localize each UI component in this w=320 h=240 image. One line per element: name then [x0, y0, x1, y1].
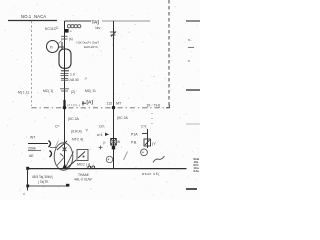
junction feeder2 [112, 106, 115, 109]
wire bold segment [63, 100, 65, 108]
dashed fence right [168, 0, 170, 105]
svg-text:1kv: 1kv [95, 26, 101, 30]
svg-text:[X - TH]: [X - TH] [147, 103, 160, 107]
svg-text:LVA 30: LVA 30 [69, 78, 79, 82]
wire main feeder [64, 21, 66, 168]
svg-text:s: s [70, 29, 72, 33]
coil L1 [67, 25, 80, 28]
svg-text:P1A: P1A [131, 133, 138, 137]
svg-text:w 4: w 4 [97, 133, 103, 137]
mcc box [77, 150, 88, 161]
svg-text:C=(: C=( [141, 125, 147, 129]
meter M1 [47, 41, 59, 53]
svg-text:(s): (s) [69, 37, 73, 41]
svg-text:KC11C: KC11C [45, 27, 57, 31]
arrow head [105, 133, 109, 137]
svg-text:KJa: KJa [194, 169, 200, 173]
bus main bottom [28, 168, 187, 170]
svg-text:Y(0( OucP ( OasT: Y(0( OucP ( OasT [76, 41, 99, 45]
svg-text:.V: .V [84, 77, 87, 81]
ct slash [55, 141, 59, 148]
bus left corner blob [26, 167, 29, 170]
pb motor dots [142, 152, 143, 153]
svg-text:c.f = (=( - (: c.f = (=( - ( [67, 103, 80, 107]
feeder box bottom [28, 185, 69, 187]
signature squiggle [153, 156, 165, 163]
breaker circle B1 [54, 143, 73, 171]
svg-text:wsun uK(: wsun uK( [142, 172, 160, 176]
feeder box left wall [27, 169, 29, 191]
margin line bottom [186, 188, 197, 190]
svg-text:v.: v. [188, 59, 190, 63]
svg-text:Y: Y [86, 128, 89, 133]
pb contact [144, 139, 151, 146]
svg-text:W: W [117, 140, 121, 144]
node TA [92, 20, 101, 31]
svg-text:AE: AE [29, 154, 34, 158]
svg-text:MC( 11: MC( 11 [85, 89, 96, 93]
pt bar [61, 42, 63, 50]
bus top line right [102, 20, 150, 22]
motor feeder2 [106, 156, 112, 162]
bus drawout symbol [88, 166, 95, 169]
disconnect D2 [61, 78, 68, 80]
wire slash [59, 41, 63, 44]
junction main [63, 106, 67, 110]
svg-text:NO.1: NO.1 [21, 14, 32, 19]
svg-text:MC( 1(: MC( 1( [43, 89, 54, 93]
svg-text:NTC 4(: NTC 4( [72, 138, 84, 142]
margin text block [194, 157, 200, 173]
svg-text:C: C [56, 26, 59, 30]
cutout feeder2 [111, 139, 116, 146]
breaker inner marks [57, 152, 74, 168]
bus no1 line [8, 20, 57, 22]
scan speckle noise [3, 4, 198, 198]
breaker tank T1 [59, 49, 71, 68]
svg-text:THAAE: THAAE [78, 173, 90, 177]
svg-text:NACA: NACA [34, 14, 46, 19]
svg-text:M( 1.11: M( 1.11 [18, 91, 29, 95]
svg-text:(2(: (2( [71, 90, 76, 94]
disconnect D3 [60, 89, 69, 91]
margin line top [186, 20, 200, 22]
feeder box bottom serif left [26, 185, 29, 188]
svg-text:n: n [50, 45, 53, 50]
svg-text:MT: MT [116, 102, 122, 106]
mcc tie wire [66, 160, 76, 169]
pb wire [147, 129, 149, 148]
breaker tank tick [61, 70, 69, 72]
svg-text:1.0: 1.0 [70, 73, 75, 77]
disconnect D1 [61, 74, 69, 76]
breaker arrow blob [62, 164, 67, 170]
switch S1 [61, 36, 68, 39]
pb tick [142, 133, 148, 135]
svg-text:48.5 Ta( 30kV(: 48.5 Ta( 30kV( [32, 175, 54, 179]
wire feeder 2 [113, 21, 115, 168]
margin line mid [186, 89, 200, 91]
svg-text:WT: WT [30, 136, 35, 140]
svg-text:C=: C= [55, 125, 60, 129]
feeder box bottom serif right [66, 184, 69, 187]
svg-text:[A]: [A] [87, 100, 94, 105]
bus top line [65, 20, 92, 22]
svg-text:(0C 2A: (0C 2A [68, 117, 80, 121]
cutout blob [112, 146, 115, 149]
margin tick [188, 47, 194, 49]
svg-text:( Ta(TE: ( Ta(TE [38, 180, 48, 184]
bus N0.1 label [21, 14, 46, 19]
svg-text:Cm: Cm [99, 125, 105, 129]
breaker slash [57, 141, 67, 150]
svg-text:112: 112 [107, 102, 113, 106]
ct underline [28, 150, 41, 152]
ct bracket 1 [49, 141, 51, 148]
svg-text:TA]: TA] [92, 20, 100, 25]
svg-text:(0,R,4): (0,R,4) [71, 130, 82, 134]
breaker X mark [63, 148, 67, 152]
dashed fence left [31, 21, 33, 106]
stray dot [23, 193, 25, 195]
svg-text:p: p [104, 141, 106, 145]
slash mark [124, 152, 128, 161]
disconnect feeder2 [110, 32, 116, 37]
plus mark [99, 146, 103, 150]
svg-text:ExPL20Y0: ExPL20Y0 [84, 45, 98, 49]
margin line faint [186, 123, 200, 125]
svg-text:(0C 2A: (0C 2A [117, 116, 129, 120]
svg-text:n..: n.. [188, 38, 192, 42]
pb dotted link [151, 113, 153, 128]
svg-text:)Y: )Y [152, 142, 156, 146]
mcc box diagonal [78, 152, 85, 159]
ct bracket 2 [50, 151, 52, 158]
node A tick [82, 101, 86, 106]
dashed fence bottom [32, 107, 169, 109]
feeder box text [32, 175, 54, 184]
mcc box dot [83, 156, 85, 158]
wire fence corner [166, 105, 169, 108]
phase note [74, 173, 92, 182]
motor feeder2 dots [108, 159, 109, 160]
svg-text:P.B.: P.B. [131, 141, 137, 145]
cutout X [111, 139, 116, 145]
wire meter tap [59, 46, 65, 48]
ct link wire [50, 147, 56, 149]
svg-text:200k: 200k [28, 147, 36, 151]
pb motor [141, 149, 148, 156]
ct wire [28, 143, 48, 145]
fuse F1 [65, 29, 69, 33]
note text right of tank [76, 41, 99, 50]
label 112 MT [107, 102, 122, 106]
svg-text:4HL-0 0L/W: 4HL-0 0L/W [74, 178, 92, 182]
pb contact mark [145, 140, 150, 145]
